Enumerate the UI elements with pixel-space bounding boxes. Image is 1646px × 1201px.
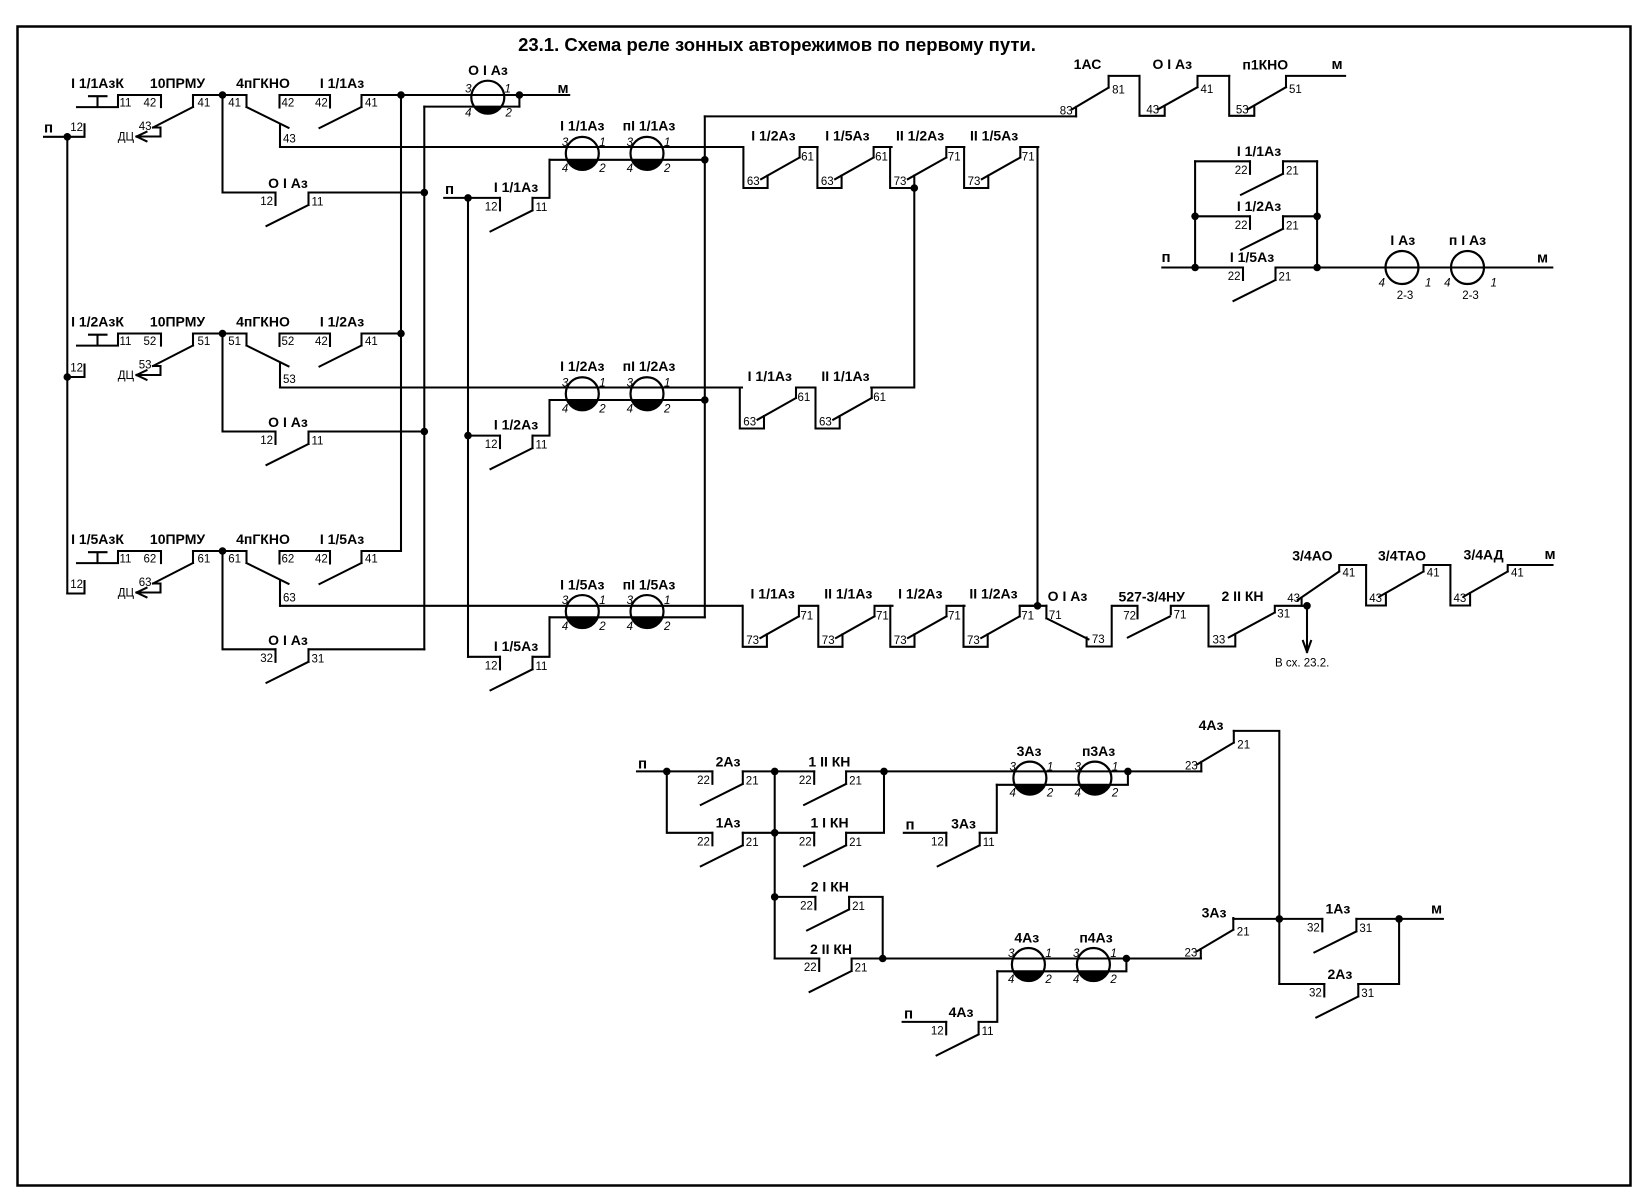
wire row-1 bus to coil [401, 94, 569, 96]
svg-text:11: 11 [983, 837, 995, 849]
svg-text:2 I КН: 2 I КН [811, 879, 849, 895]
svg-text:ДЦ: ДЦ [118, 588, 135, 600]
wire coil row 2 bottom chord [550, 159, 705, 161]
svg-text:I 1/2АзК: I 1/2АзК [71, 314, 124, 330]
svg-text:11: 11 [120, 554, 132, 566]
svg-text:52: 52 [282, 336, 295, 348]
svg-text:22: 22 [1235, 165, 1248, 177]
junction bus G row 3Аз [1276, 915, 1284, 923]
wire 4Аз bottom chord [997, 959, 1126, 972]
svg-text:10ПРМУ: 10ПРМУ [150, 75, 205, 91]
contact II 1/1Аз (chain row 4) [818, 586, 892, 647]
junction м bottom [1395, 915, 1403, 923]
relay coil пI 1/2Аз [623, 358, 676, 415]
svg-text:1 I КН: 1 I КН [810, 815, 848, 831]
wire 2 II КН row [775, 957, 1201, 959]
wire 2Аз branch [1279, 919, 1399, 984]
svg-text:I 1/5Аз: I 1/5Аз [320, 531, 364, 547]
svg-text:2: 2 [598, 163, 606, 175]
svg-text:4: 4 [562, 621, 568, 633]
wire п vertical bus [66, 137, 68, 594]
terminal м (right block) [1537, 250, 1548, 267]
svg-text:4: 4 [627, 403, 633, 415]
contact 2Аз 32-31 [1309, 966, 1374, 1018]
svg-text:21: 21 [1286, 220, 1299, 232]
svg-text:ДЦ: ДЦ [118, 132, 135, 144]
wire 4Аз top to bus G [1234, 731, 1280, 984]
svg-text:527-3/4НУ: 527-3/4НУ [1119, 589, 1186, 605]
node bus E bottom [1034, 602, 1042, 610]
svg-text:2: 2 [663, 621, 671, 633]
contact I 1/2Аз (row 2) [320, 314, 402, 367]
svg-text:21: 21 [852, 901, 865, 913]
node bus D row 3 [701, 396, 709, 404]
contact I 1/2Аз (chain row 2) [743, 128, 817, 189]
svg-text:63: 63 [283, 592, 296, 604]
wire 4пГКНО 53 to coil row 3 [280, 386, 742, 388]
wire rail to I Аз coil [1317, 266, 1552, 268]
svg-text:73: 73 [967, 635, 980, 647]
svg-text:3: 3 [1008, 948, 1015, 960]
svg-text:71: 71 [1174, 610, 1187, 622]
svg-text:I 1/2Аз: I 1/2Аз [494, 417, 538, 433]
wire bus B (О I Аз coil 4) [423, 107, 425, 650]
wire п to rail [1162, 266, 1195, 268]
svg-text:61: 61 [875, 152, 888, 164]
node bus B row-2 О contact [421, 428, 429, 436]
relay coil I Аз [1379, 232, 1432, 302]
svg-text:22: 22 [800, 900, 813, 912]
svg-text:2-3: 2-3 [1397, 290, 1414, 302]
svg-text:51: 51 [198, 336, 211, 348]
svg-text:I 1/1Аз: I 1/1Аз [320, 75, 364, 91]
svg-text:I 1/1Аз: I 1/1Аз [751, 586, 795, 602]
svg-text:11: 11 [312, 436, 324, 448]
svg-text:м: м [1331, 56, 1342, 73]
contact 3Аз 12-11 (п branch) [904, 785, 997, 867]
svg-text:4: 4 [1379, 278, 1385, 290]
node row-1 bus A junction [397, 91, 405, 99]
svg-text:I 1/1Аз: I 1/1Аз [560, 118, 604, 134]
junction bus H row 2 I КН [771, 893, 779, 901]
svg-text:I 1/5Аз: I 1/5Аз [494, 638, 538, 654]
svg-text:61: 61 [801, 152, 814, 164]
contact 2 II КН [804, 941, 867, 992]
svg-text:41: 41 [365, 554, 378, 566]
svg-text:3Аз: 3Аз [1017, 743, 1042, 759]
relay coil 4Аз [1008, 930, 1052, 987]
svg-text:23.1. Схема реле зонных авторе: 23.1. Схема реле зонных авторежимов по п… [518, 34, 1036, 55]
svg-text:42: 42 [144, 98, 157, 110]
node bus C top [464, 194, 472, 202]
svg-text:I 1/2Аз: I 1/2Аз [751, 128, 795, 144]
svg-text:32: 32 [1307, 922, 1320, 934]
svg-text:п: п [638, 756, 647, 773]
contact 4пГКНО (row 2) [228, 314, 330, 388]
svg-text:63: 63 [743, 417, 756, 429]
contact 1 II КН [799, 753, 862, 805]
svg-text:ДЦ: ДЦ [118, 370, 135, 382]
svg-text:п: п [445, 181, 454, 198]
svg-text:4Аз: 4Аз [1014, 930, 1039, 946]
wire bus A [400, 95, 402, 551]
svg-text:2: 2 [1109, 974, 1117, 986]
junction right block (1195.1, 216.3) [1191, 213, 1199, 221]
wire 1Аз row [667, 771, 884, 832]
svg-text:4: 4 [562, 163, 568, 175]
svg-text:23: 23 [1185, 760, 1198, 772]
contact 4Аз 12-11 (п branch) [903, 971, 998, 1055]
svg-text:63: 63 [819, 417, 832, 429]
svg-text:42: 42 [315, 98, 328, 110]
svg-text:1: 1 [1425, 278, 1431, 290]
svg-text:4: 4 [562, 403, 568, 415]
svg-text:1: 1 [1112, 762, 1118, 774]
svg-text:43: 43 [283, 134, 296, 146]
svg-text:21: 21 [746, 837, 759, 849]
svg-text:31: 31 [1359, 923, 1372, 935]
wire 3Аз bottom chord [997, 771, 1128, 784]
svg-text:83: 83 [1060, 105, 1073, 117]
contact 2 II КН (row 4) [1209, 588, 1308, 647]
svg-text:1: 1 [1047, 762, 1053, 774]
svg-text:м: м [1544, 546, 1555, 563]
junction after п3Аз [1124, 768, 1132, 776]
contact 10ПРМУ (row 2) with ДЦ arrow [118, 314, 247, 383]
svg-text:41: 41 [365, 336, 378, 348]
node п rail terminal 12 (row 1) [44, 120, 85, 137]
svg-text:п4Аз: п4Аз [1079, 930, 1112, 946]
wire 4пГКНО 63 to coil row 4 [280, 605, 742, 607]
relay coil I 1/2Аз [560, 358, 606, 415]
contact 1Аз 22-21 [697, 815, 758, 867]
contact II 1/1Аз (chain row 3) [816, 368, 890, 429]
svg-text:п1КНО: п1КНО [1242, 57, 1288, 73]
contact 2Аз 22-21 [697, 753, 758, 805]
contact II 1/2Аз (chain row 4) [964, 586, 1038, 647]
contact I 1/1Аз 12-11 (coil row 2) [444, 160, 549, 232]
svg-text:3: 3 [1073, 948, 1080, 960]
relay coil О I Аз [465, 62, 512, 120]
svg-text:23: 23 [1185, 948, 1198, 960]
svg-text:42: 42 [282, 98, 295, 110]
svg-text:21: 21 [1286, 165, 1299, 177]
svg-text:3: 3 [562, 377, 569, 389]
terminal п (right block) [1161, 249, 1170, 266]
svg-text:43: 43 [1369, 593, 1382, 605]
svg-text:61: 61 [228, 554, 241, 566]
svg-text:I 1/1Аз: I 1/1Аз [748, 368, 792, 384]
svg-text:71: 71 [800, 610, 813, 622]
svg-text:1: 1 [599, 595, 605, 607]
svg-text:4: 4 [1074, 788, 1080, 800]
svg-text:2 II КН: 2 II КН [810, 941, 852, 957]
svg-text:22: 22 [697, 836, 710, 848]
terminal 12 (row 2) [67, 363, 84, 378]
svg-text:11: 11 [536, 202, 548, 214]
svg-text:В сх. 23.2.: В сх. 23.2. [1275, 658, 1329, 670]
svg-text:3: 3 [627, 595, 634, 607]
svg-text:42: 42 [315, 554, 328, 566]
contact II 1/2Аз (chain row 2) [890, 128, 964, 189]
contact О I Аз 12-11 (row 1) [223, 95, 425, 226]
svg-text:I 1/2Аз: I 1/2Аз [1237, 198, 1281, 214]
svg-text:63: 63 [747, 176, 760, 188]
contact I 1/1Аз (row 1) [320, 75, 402, 128]
svg-text:22: 22 [697, 775, 710, 787]
svg-text:2: 2 [598, 403, 606, 415]
wire left rail [1194, 161, 1196, 267]
svg-text:I 1/1Аз: I 1/1Аз [1237, 143, 1281, 159]
svg-text:12: 12 [485, 439, 498, 451]
relay coil пI 1/5Аз [623, 576, 676, 633]
contact I 1/5Аз 22-21 (right block) [1195, 249, 1317, 301]
wire О I Аз terminal 4-2 chord [424, 106, 519, 108]
contact I 1/2Аз 12-11 (coil row 3) [468, 400, 550, 469]
terminal м (row 4) [1544, 546, 1555, 563]
wire bus F [871, 188, 914, 388]
svg-text:12: 12 [70, 122, 83, 134]
svg-text:81: 81 [1112, 84, 1125, 96]
svg-text:О I Аз: О I Аз [268, 414, 308, 430]
svg-text:3: 3 [627, 377, 634, 389]
contact 1 I КН [799, 815, 862, 867]
button I 1/1АзК [71, 75, 161, 110]
svg-text:21: 21 [1237, 739, 1250, 751]
contact 3Аз 23-21 (lower) [1185, 905, 1250, 960]
junction bottom п 3 [880, 768, 888, 776]
svg-text:71: 71 [876, 610, 889, 622]
svg-text:4: 4 [627, 621, 633, 633]
svg-text:1: 1 [664, 595, 670, 607]
svg-text:21: 21 [746, 775, 759, 787]
svg-text:4: 4 [1444, 278, 1450, 290]
svg-text:2: 2 [1111, 788, 1119, 800]
svg-text:22: 22 [1235, 220, 1248, 232]
svg-text:I 1/2Аз: I 1/2Аз [320, 314, 364, 330]
svg-text:3: 3 [562, 595, 569, 607]
svg-text:3/4АО: 3/4АО [1292, 548, 1332, 564]
svg-text:51: 51 [228, 336, 241, 348]
svg-text:12: 12 [485, 660, 498, 672]
node 10ПРМУ-4пГКНО junction (row 3) [219, 547, 227, 555]
svg-text:41: 41 [228, 98, 241, 110]
svg-text:12: 12 [70, 363, 83, 375]
relay coil п4Аз [1073, 930, 1117, 987]
wire row 4 chain to О I Аз [1020, 605, 1047, 607]
svg-text:2-3: 2-3 [1462, 290, 1479, 302]
svg-text:II 1/1Аз: II 1/1Аз [824, 586, 872, 602]
svg-text:I 1/5Аз: I 1/5Аз [825, 128, 869, 144]
svg-text:II 1/2Аз: II 1/2Аз [969, 586, 1017, 602]
svg-text:3/4ТАО: 3/4ТАО [1378, 548, 1426, 564]
svg-text:73: 73 [894, 176, 907, 188]
svg-text:п3Аз: п3Аз [1082, 743, 1115, 759]
contact I 1/1Аз (chain row 3) [740, 368, 814, 429]
node 10ПРМУ-4пГКНО junction (row 2) [219, 330, 227, 338]
svg-text:53: 53 [139, 360, 152, 372]
contact 527-3/4НУ [1119, 589, 1209, 638]
svg-text:О I Аз: О I Аз [268, 175, 308, 191]
contact 10ПРМУ (row 3) with ДЦ arrow [118, 531, 247, 600]
svg-text:71: 71 [948, 152, 961, 164]
relay coil пI 1/1Аз [623, 118, 676, 175]
contact I 1/1Аз (chain row 4) [743, 586, 817, 647]
contact 4пГКНО (row 1) [228, 75, 330, 147]
svg-text:I 1/2Аз: I 1/2Аз [560, 358, 604, 374]
junction right block (1317.1, 216.3) [1313, 213, 1321, 221]
svg-text:61: 61 [798, 392, 811, 404]
junction after п4Аз [1123, 955, 1131, 963]
svg-text:п: п [1161, 249, 1170, 266]
contact О I Аз (top right) [1140, 56, 1230, 116]
svg-text:11: 11 [982, 1026, 994, 1038]
svg-text:31: 31 [1361, 988, 1374, 1000]
junction bus H row 1Аз [771, 829, 779, 837]
svg-text:11: 11 [536, 440, 548, 452]
terminal 12 (row 3) [67, 579, 84, 594]
node м junction row 1 [516, 91, 524, 99]
svg-text:41: 41 [365, 98, 378, 110]
relay coil п I Аз [1444, 232, 1497, 302]
svg-text:53: 53 [1236, 104, 1249, 116]
contact I 1/1Аз 22-21 (right block) [1195, 143, 1317, 195]
node bus A row 2 [397, 330, 405, 338]
junction right block (1195.1, 267.5) [1191, 264, 1199, 272]
svg-text:10ПРМУ: 10ПРМУ [150, 314, 205, 330]
svg-text:I 1/5Аз: I 1/5Аз [1230, 249, 1274, 265]
svg-text:2: 2 [663, 403, 671, 415]
svg-text:43: 43 [1454, 593, 1467, 605]
svg-text:73: 73 [822, 635, 835, 647]
contact 3/4АД [1450, 547, 1552, 606]
svg-text:3Аз: 3Аз [951, 815, 976, 831]
svg-text:пI 1/5Аз: пI 1/5Аз [623, 576, 676, 592]
junction 2 II КН row [879, 955, 887, 963]
svg-text:71: 71 [1022, 152, 1035, 164]
junction п rail row 1 [64, 133, 72, 141]
arrow to В сх. 23.2. [1275, 602, 1329, 670]
contact 3/4АО [1287, 548, 1366, 606]
svg-text:41: 41 [1511, 568, 1524, 580]
svg-text:I 1/5АзК: I 1/5АзК [71, 531, 124, 547]
svg-text:4: 4 [465, 108, 471, 120]
svg-text:71: 71 [1049, 610, 1062, 622]
svg-text:2: 2 [505, 108, 513, 120]
svg-text:О I Аз: О I Аз [268, 632, 308, 648]
wire 1АС top [1109, 75, 1140, 77]
junction bottom п 1 [663, 768, 671, 776]
svg-text:I 1/2Аз: I 1/2Аз [898, 586, 942, 602]
wire п bottom row [637, 770, 884, 772]
svg-text:53: 53 [283, 374, 296, 386]
wire bus D to 1АС [705, 115, 1076, 117]
svg-text:22: 22 [1228, 271, 1241, 283]
svg-text:4Аз: 4Аз [949, 1004, 974, 1020]
svg-text:I Аз: I Аз [1390, 232, 1415, 248]
svg-text:4пГКНО: 4пГКНО [236, 314, 290, 330]
junction right block (1317.1, 267.5) [1313, 264, 1321, 272]
svg-text:п I Аз: п I Аз [1449, 232, 1486, 248]
wire bus D [704, 116, 706, 617]
svg-text:3: 3 [1009, 762, 1016, 774]
node bus C row-3 [464, 432, 472, 440]
svg-text:62: 62 [282, 554, 295, 566]
svg-text:43: 43 [139, 121, 152, 133]
wire 2 I КН row [775, 897, 883, 959]
svg-text:4: 4 [1008, 974, 1014, 986]
svg-text:61: 61 [198, 554, 211, 566]
contact I 1/5Аз (chain row 2) [817, 128, 891, 189]
node bus F top [911, 184, 919, 192]
svg-text:11: 11 [120, 336, 132, 348]
terminal м (1АС chain) [1331, 56, 1342, 73]
terminal м (row 1) [557, 80, 568, 97]
svg-text:22: 22 [799, 836, 812, 848]
svg-text:2: 2 [598, 621, 606, 633]
svg-text:41: 41 [198, 98, 211, 110]
svg-text:п: п [905, 817, 914, 834]
svg-text:31: 31 [1277, 609, 1290, 621]
wire 4пГКНО 43 to coil row 2 [280, 146, 742, 148]
contact 4пГКНО (row 3) [228, 531, 330, 606]
svg-text:1: 1 [1491, 278, 1497, 290]
svg-text:4: 4 [1073, 974, 1079, 986]
svg-text:43: 43 [1287, 593, 1300, 605]
contact I 1/2Аз 22-21 (right block) [1195, 198, 1317, 250]
svg-text:1: 1 [505, 84, 511, 96]
svg-text:1АС: 1АС [1074, 56, 1102, 72]
svg-text:61: 61 [873, 392, 886, 404]
node bus B row-1 О contact [421, 189, 429, 197]
wire right rail [1316, 161, 1318, 267]
contact II 1/5Аз (chain row 2) [964, 128, 1038, 189]
svg-text:21: 21 [849, 775, 862, 787]
svg-text:51: 51 [1289, 84, 1302, 96]
contact О I Аз 32-31 (row 3) [223, 551, 425, 683]
wire coil row 4 bottom chord [550, 616, 705, 618]
contact I 1/5Аз (row 3) [320, 531, 402, 584]
svg-text:1: 1 [664, 137, 670, 149]
svg-text:21: 21 [1279, 272, 1292, 284]
svg-text:3: 3 [1074, 762, 1081, 774]
svg-text:пI 1/1Аз: пI 1/1Аз [623, 118, 676, 134]
wire bus C (п) [467, 198, 469, 657]
svg-text:1Аз: 1Аз [1325, 901, 1350, 917]
svg-text:63: 63 [139, 577, 152, 589]
svg-text:22: 22 [804, 962, 817, 974]
svg-text:21: 21 [855, 963, 868, 975]
node bus D row 2 [701, 156, 709, 164]
svg-text:41: 41 [1427, 568, 1440, 580]
svg-text:1: 1 [599, 377, 605, 389]
svg-text:3: 3 [627, 137, 634, 149]
node 10ПРМУ-4пГКНО junction (row 1) [219, 91, 227, 99]
svg-text:71: 71 [1021, 610, 1034, 622]
contact п1КНО [1229, 57, 1345, 117]
svg-text:2: 2 [1046, 788, 1054, 800]
svg-text:41: 41 [1343, 568, 1356, 580]
svg-text:4: 4 [1009, 788, 1015, 800]
svg-text:3: 3 [562, 137, 569, 149]
svg-text:62: 62 [144, 554, 157, 566]
svg-text:12: 12 [70, 579, 83, 591]
svg-text:О I Аз: О I Аз [468, 62, 508, 78]
svg-text:м: м [1431, 901, 1442, 918]
contact 2 I КН [800, 879, 865, 931]
terminal п (bottom left) [638, 756, 647, 773]
svg-text:71: 71 [948, 610, 961, 622]
